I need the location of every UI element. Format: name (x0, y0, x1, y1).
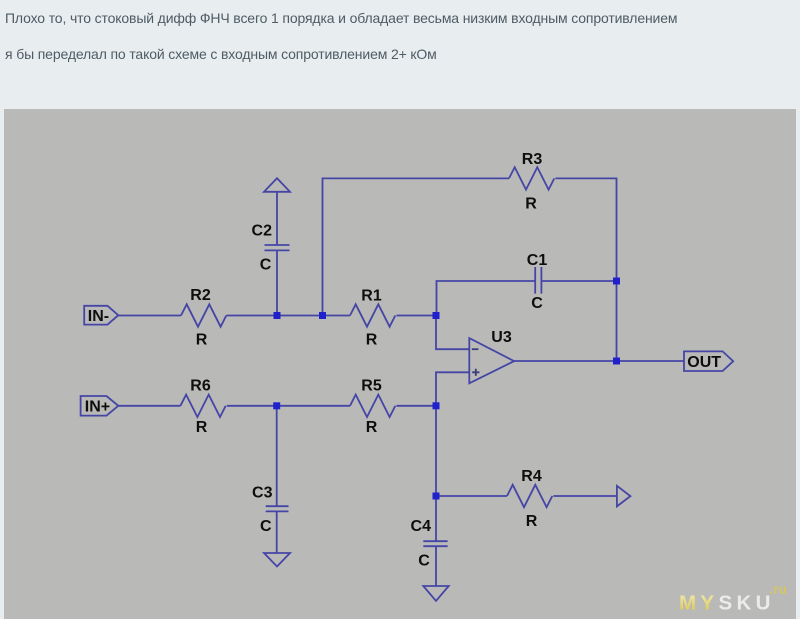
svg-text:C4: C4 (411, 518, 432, 535)
svg-text:OUT: OUT (687, 354, 721, 371)
wire: op-amp output to OUT (514, 360, 684, 362)
wire: feedback riser and top run (323, 178, 510, 315)
svg-text:R6: R6 (190, 378, 211, 395)
wire: right edge down to output (616, 281, 618, 361)
capacitor C2 (265, 245, 290, 250)
junction at C2 / IN- line (274, 312, 281, 319)
svg-text:R3: R3 (522, 151, 543, 168)
wire: R5 to non-inverting node (396, 405, 436, 407)
ground below C4 (423, 586, 448, 601)
svg-text:R1: R1 (361, 288, 382, 305)
svg-text:R: R (526, 513, 538, 530)
junction R4 / C4 node (433, 493, 440, 500)
port IN+ (81, 396, 119, 416)
watermark MYSKU.ru (679, 583, 787, 615)
wire: R3 to right edge and down (555, 178, 616, 281)
svg-text:.ru: .ru (770, 583, 788, 597)
svg-text:C: C (260, 256, 272, 273)
power flag above C2 (264, 178, 290, 192)
op-amp U3 (469, 338, 514, 383)
svg-text:C2: C2 (252, 222, 273, 239)
svg-text:C: C (531, 295, 543, 312)
junction C3 / IN+ line (273, 402, 280, 409)
wire: flag to C2 (276, 192, 278, 245)
svg-text:R2: R2 (190, 287, 211, 304)
resistor R4 (507, 485, 552, 507)
wire: C3 to ground (276, 511, 278, 553)
svg-text:MYSKU: MYSKU (679, 592, 775, 615)
port OUT (684, 351, 733, 371)
resistor R2 (181, 304, 226, 326)
wire: IN+ to R6 (118, 405, 180, 407)
wire: IN- to R2 (118, 315, 181, 317)
svg-text:R: R (196, 419, 208, 436)
svg-text:R5: R5 (361, 378, 382, 395)
wire: inverting input lead (436, 316, 469, 350)
junction non-inverting node (433, 402, 440, 409)
wire: R1 to inverting node (396, 315, 436, 317)
capacitor C1 (535, 267, 541, 294)
op-amp plus input sign (472, 369, 479, 376)
wire: R6 to R5 (227, 405, 350, 407)
wire: R2 to R1 (226, 315, 350, 317)
wire: C2 to IN- line (276, 250, 278, 315)
wire: R4 node to R4 (436, 495, 507, 497)
resistor R3 (509, 167, 554, 189)
svg-text:C: C (260, 518, 272, 535)
resistor R6 (180, 395, 225, 417)
svg-text:IN+: IN+ (85, 398, 110, 415)
off-page arrow right of R4 (617, 486, 631, 507)
capacitor C4 (423, 541, 447, 546)
wire: non-inverting node down to R4 node (435, 406, 437, 496)
svg-text:C3: C3 (252, 485, 273, 502)
junction output / right edge (613, 358, 620, 365)
junction at feedback riser / IN- line (319, 312, 326, 319)
capacitor C3 (266, 506, 289, 511)
resistor R5 (350, 395, 395, 417)
wire: C1 to right edge (541, 280, 616, 282)
svg-text:R: R (366, 331, 378, 348)
wire: C4 to ground (435, 546, 437, 586)
wire: node down to C3 (276, 406, 278, 506)
wire: inverting node up to C1 (437, 281, 536, 316)
op-amp minus input sign (472, 348, 479, 350)
wire: R4 to off-page arrow (553, 495, 617, 497)
wire: non-inverting input lead (436, 372, 469, 406)
svg-text:U3: U3 (491, 329, 512, 346)
svg-text:IN-: IN- (88, 308, 109, 325)
svg-text:R: R (366, 419, 378, 436)
svg-text:R: R (525, 195, 537, 212)
wire: R4 node down to C4 (435, 496, 437, 541)
svg-text:C: C (418, 552, 430, 569)
svg-text:R4: R4 (521, 468, 542, 485)
port IN- (84, 306, 118, 325)
svg-text:C1: C1 (527, 252, 548, 269)
resistor R1 (350, 304, 395, 326)
ground below C3 (264, 553, 290, 567)
svg-text:R: R (196, 331, 208, 348)
junction inverting node (433, 312, 440, 319)
junction C1 / right edge (613, 278, 620, 285)
